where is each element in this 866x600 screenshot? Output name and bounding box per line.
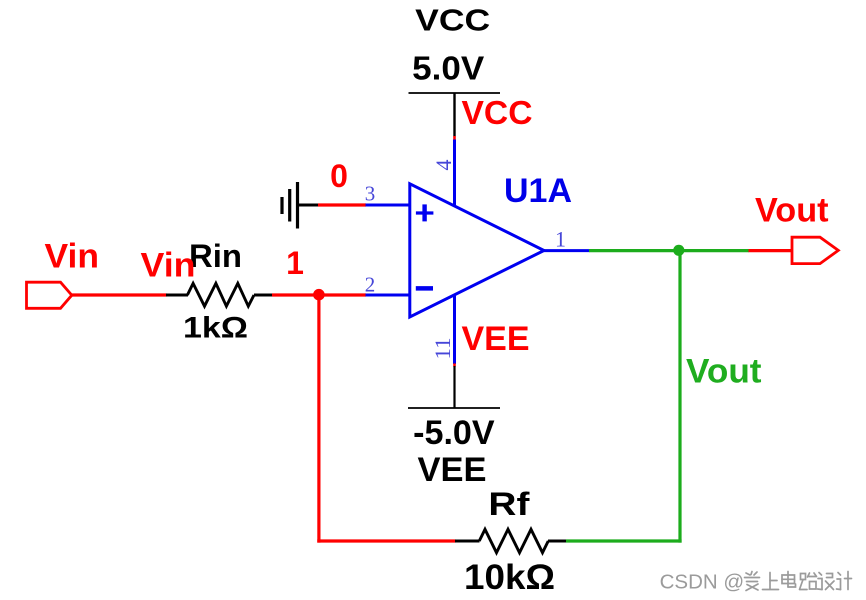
svg-text:Vin: Vin (45, 238, 100, 276)
svg-text:Rin: Rin (189, 238, 242, 274)
svg-text:4: 4 (431, 160, 456, 171)
svg-text:-5.0V: -5.0V (413, 414, 495, 452)
svg-text:0: 0 (330, 158, 348, 194)
svg-text:Vout: Vout (755, 192, 829, 230)
svg-text:1: 1 (555, 227, 566, 252)
svg-text:VCC: VCC (462, 94, 533, 131)
svg-text:U1A: U1A (504, 172, 572, 210)
svg-text:5.0V: 5.0V (412, 50, 484, 87)
svg-text:11: 11 (430, 338, 455, 360)
svg-text:VEE: VEE (462, 320, 530, 358)
svg-text:Vin: Vin (141, 246, 196, 284)
svg-text:3: 3 (365, 181, 376, 205)
svg-text:Rf: Rf (488, 486, 529, 522)
svg-text:1: 1 (286, 245, 304, 281)
svg-text:VEE: VEE (418, 451, 487, 489)
svg-text:VCC: VCC (415, 2, 490, 37)
svg-text:10kΩ: 10kΩ (464, 558, 555, 597)
svg-text:2: 2 (365, 272, 376, 296)
svg-text:CSDN @: CSDN @ (660, 571, 745, 594)
svg-text:1kΩ: 1kΩ (183, 311, 248, 344)
svg-text:Vout: Vout (686, 352, 762, 390)
